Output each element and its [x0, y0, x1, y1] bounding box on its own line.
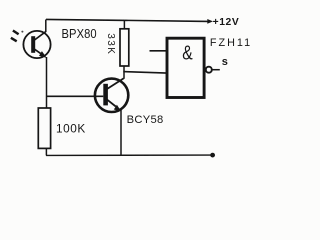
- wire: node A to gate lower input: [123, 72, 167, 74]
- svg-text:BPX80: BPX80: [62, 27, 97, 42]
- +12V supply arrowhead: [207, 19, 213, 24]
- wire: bottom rail: [46, 154, 211, 156]
- wire: R2 bottom to bottom rail: [45, 148, 47, 155]
- wire: Q1 emitter left vertical rail: [46, 57, 48, 108]
- svg-text:FZH11: FZH11: [210, 37, 252, 49]
- svg-text:+12V: +12V: [213, 17, 240, 28]
- wire: gate upper input stub: [150, 50, 168, 52]
- svg-text:s: s: [222, 56, 228, 68]
- light arrow 1: [13, 31, 19, 35]
- light arrow 1 tip speck: [21, 31, 23, 33]
- wire: +12V top rail: [46, 19, 209, 21]
- svg-text:&: &: [182, 40, 192, 64]
- bottom rail end dot: [210, 153, 215, 158]
- wire: Q1 collector to top rail: [45, 20, 47, 33]
- resistor R2 100K: [38, 108, 50, 148]
- light arrow 2: [11, 38, 17, 42]
- svg-text:100K: 100K: [56, 122, 86, 136]
- wire: Q2 base: [46, 95, 103, 97]
- nand gate U1 FZH11: [167, 38, 212, 97]
- wire: R1 bottom to Q2 collector (node A): [123, 66, 125, 79]
- svg-text:BCY58: BCY58: [127, 114, 164, 126]
- wire: rail to R1 top: [123, 20, 125, 28]
- phototransistor Q1 BPX80: [23, 31, 50, 58]
- resistor R1 33K: [120, 29, 129, 66]
- svg-text:33K: 33K: [105, 33, 116, 55]
- wire: gate output: [212, 69, 220, 71]
- transistor Q2 BCY58: [95, 78, 128, 112]
- wire: Q2 emitter down to bottom rail: [120, 109, 122, 156]
